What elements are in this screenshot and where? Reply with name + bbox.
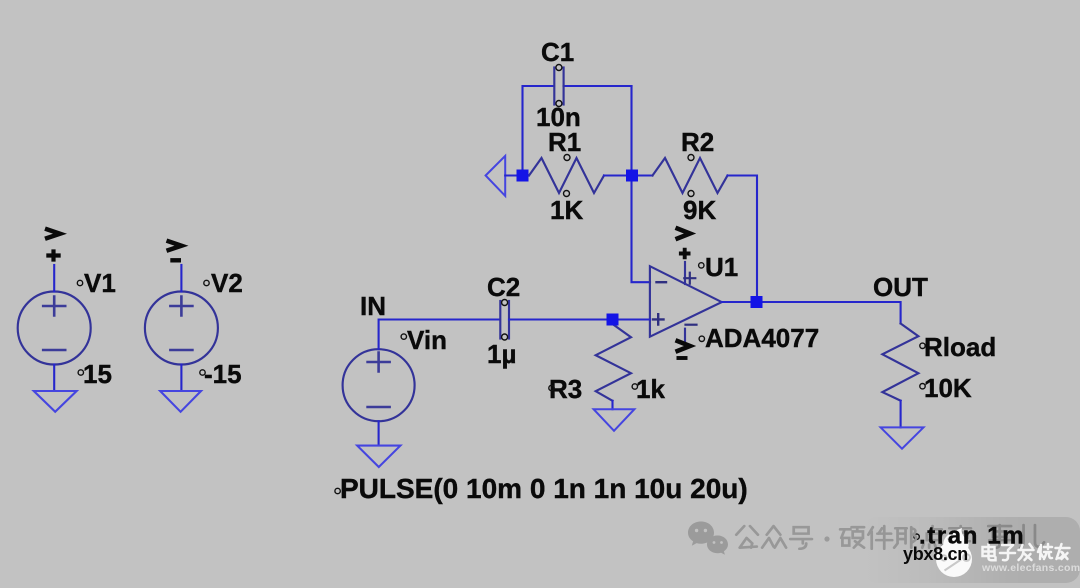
op-amp non-inverting mark — [653, 314, 664, 324]
elecfans logo leaf — [943, 528, 968, 550]
wire V2 bottom lead — [180, 365, 182, 391]
ground V1 — [34, 391, 77, 412]
pin circle R2 bottom — [688, 191, 694, 197]
char ying — [840, 527, 864, 548]
capacitor C2 — [500, 301, 509, 339]
svg-text:15: 15 — [83, 359, 112, 389]
pin circle R2 top — [688, 155, 694, 161]
wire R2 right down to output node — [728, 176, 758, 303]
svg-text:Rload: Rload — [924, 332, 996, 362]
Vin minus mark — [368, 406, 390, 409]
svg-text:R2: R2 — [681, 127, 714, 157]
svg-text:1µ: 1µ — [487, 339, 516, 369]
char hao — [790, 527, 812, 549]
resistor R3 — [596, 324, 631, 401]
elecfans chinese text — [983, 544, 1070, 560]
svg-text:Vin: Vin — [407, 325, 447, 355]
pin circle U1 — [699, 263, 704, 268]
char shao — [1038, 544, 1052, 559]
char shi — [949, 526, 971, 549]
op-amp U1 — [650, 266, 722, 337]
watermark text gongzhonghao yingjian — [736, 525, 1044, 549]
wire ground to node A — [505, 174, 522, 176]
ground Rload — [881, 427, 924, 448]
char er — [1020, 525, 1044, 548]
V1 minus mark — [43, 349, 65, 352]
wire IN node — [379, 320, 500, 350]
char na — [894, 527, 916, 548]
voltage source Vin — [343, 349, 415, 421]
pin circle C1 bottom — [556, 101, 562, 107]
pin circle tran label — [914, 534, 919, 539]
pin circle C2 top — [502, 300, 508, 306]
svg-text:U1: U1 — [705, 252, 738, 282]
svg-text:PULSE(0 10m 0 1n 1n 10u 20u): PULSE(0 10m 0 1n 1n 10u 20u) — [340, 473, 748, 504]
pin circle C1 top — [556, 65, 562, 71]
junction node A — [517, 170, 529, 182]
V2 minus mark — [170, 349, 192, 352]
char dian2 — [983, 544, 996, 560]
label +V of op-amp rotated — [676, 228, 691, 260]
char shi2 — [988, 525, 1011, 548]
pin circle Vin label — [401, 334, 406, 339]
pin circle ADA4077 — [699, 336, 704, 341]
op-amp V- pin — [684, 329, 686, 342]
ground Vin — [357, 446, 400, 467]
junction node OUT — [751, 296, 763, 308]
wire node B to R2 — [632, 174, 653, 176]
op-amp V+ mark — [684, 273, 695, 284]
ground R3 — [594, 409, 635, 431]
elecfans logo trace — [941, 535, 969, 571]
V2 plus mark — [170, 297, 192, 316]
wire C1 right to feedback node — [564, 85, 632, 87]
pin circle 10K label — [920, 384, 925, 389]
label -V of V2 rotated — [167, 241, 182, 261]
op-amp inverting mark — [657, 281, 667, 283]
svg-text:9K: 9K — [683, 195, 716, 225]
wire Rload bottom lead — [900, 401, 902, 428]
svg-text:C1: C1 — [541, 37, 574, 67]
svg-text:R1: R1 — [548, 127, 581, 157]
pin circle PULSE label — [335, 488, 340, 493]
wire feedback vertical — [632, 86, 651, 282]
svg-text:IN: IN — [360, 291, 386, 321]
svg-text:OUT: OUT — [873, 272, 928, 302]
junction node IN-R3 — [607, 314, 619, 326]
svg-text:www.elecfans.com: www.elecfans.com — [981, 562, 1080, 574]
elecfans logo circle — [936, 541, 972, 577]
pin circle Rload label — [920, 343, 925, 348]
voltage source V1 — [18, 292, 91, 365]
op-amp V- mark — [686, 324, 697, 326]
wire R1 to node B — [604, 174, 632, 176]
svg-text:V2: V2 — [211, 268, 243, 298]
ground arrow left (R1 input ground) — [486, 156, 506, 196]
Vin plus mark — [368, 353, 390, 372]
pin circle C2 bottom — [502, 334, 508, 340]
ground V2 — [160, 391, 201, 412]
svg-text:V1: V1 — [84, 268, 116, 298]
wire op-amp output — [722, 302, 901, 324]
svg-text:1k: 1k — [636, 374, 665, 404]
char gong — [736, 526, 758, 548]
svg-text:1K: 1K — [550, 195, 583, 225]
wire V1 top lead — [53, 265, 55, 292]
junction node B — [626, 170, 638, 182]
wire C1 loop top — [523, 86, 555, 176]
pin circle -15 label — [200, 370, 205, 375]
svg-text:10K: 10K — [924, 373, 972, 403]
svg-text:ADA4077: ADA4077 — [705, 323, 819, 353]
label +V of V1 rotated — [45, 229, 61, 262]
pin circle 1k label — [632, 384, 637, 389]
wire V1 bottom lead — [53, 365, 55, 391]
pin circle 15 label — [78, 370, 83, 375]
char jian — [868, 526, 892, 549]
wire V2 top lead — [180, 265, 182, 292]
wire Vin bottom lead — [378, 421, 380, 445]
wire R3 bottom lead — [611, 401, 613, 409]
svg-text:-15: -15 — [204, 359, 242, 389]
capacitor C1 — [554, 68, 563, 105]
char dian — [922, 526, 944, 548]
pin circle V1 label — [77, 280, 82, 285]
char you — [1056, 544, 1070, 559]
svg-text:C2: C2 — [487, 272, 520, 302]
pin circle R3 label — [549, 385, 554, 390]
char zhong — [762, 526, 786, 548]
resistor Rload — [882, 324, 918, 401]
char zi — [1000, 545, 1015, 560]
label -V of op-amp rotated — [676, 340, 691, 358]
svg-text:ybx8.cn: ybx8.cn — [903, 544, 968, 564]
char fa — [1019, 544, 1034, 560]
resistor R2 — [653, 158, 728, 193]
resistor R1 — [529, 158, 604, 193]
middle dot — [824, 536, 829, 541]
V1 plus mark — [43, 297, 65, 316]
op-amp V+ pin — [684, 262, 686, 284]
pin circle R1 bottom — [564, 191, 570, 197]
wechat icon — [688, 522, 728, 555]
pin circle R1 top — [564, 155, 570, 161]
wire C2 to op-amp — [509, 318, 650, 320]
voltage source V2 — [145, 292, 218, 365]
pin circle V2 label — [204, 280, 209, 285]
